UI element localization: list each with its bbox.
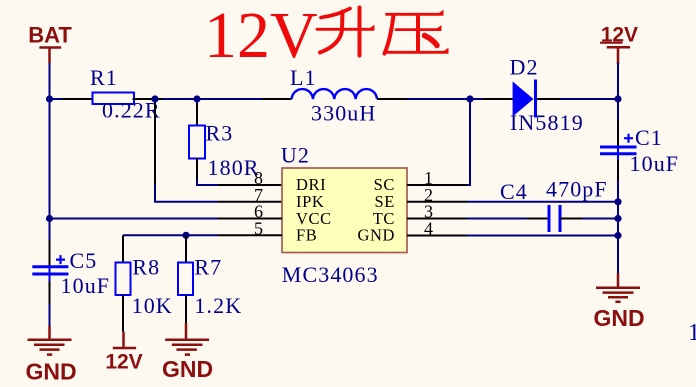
pin R7 bottom (black) (185, 295, 187, 323)
svg-text:1: 1 (688, 320, 696, 346)
pin C1 top (black) (617, 120, 619, 147)
svg-text:10uF: 10uF (61, 273, 111, 298)
svg-text:10uF: 10uF (630, 151, 680, 176)
resistor R8 (116, 255, 173, 318)
svg-text:GND: GND (593, 305, 644, 331)
wire SE to right rail (467, 201, 618, 203)
pin U2 DRI (black) (218, 184, 282, 186)
pin U2 VCC (black) (218, 218, 282, 220)
node junction at BAT/R1 (46, 95, 53, 102)
svg-text:C4: C4 (500, 179, 528, 204)
svg-text:FB: FB (296, 226, 317, 245)
svg-text:0.22R: 0.22R (102, 98, 161, 123)
pin R3 top (black) (196, 104, 198, 126)
node junction R7 top (182, 232, 189, 239)
svg-text:C5: C5 (70, 248, 98, 273)
svg-text:10K: 10K (132, 293, 173, 318)
inductor L1 (290, 65, 377, 126)
capacitor C5 lead (blue) (49, 267, 51, 281)
svg-text:L1: L1 (290, 65, 317, 90)
svg-text:R3: R3 (206, 121, 234, 146)
pin U2 GND (black) (407, 235, 467, 237)
wire BAT vertical down to VCC row and C5 (49, 63, 51, 240)
svg-text:R8: R8 (132, 255, 160, 280)
wire IPK branch vertical x=155 (upper) (154, 99, 156, 104)
node junction SE row (614, 198, 621, 205)
resistor R7 (178, 255, 242, 318)
svg-text:D2: D2 (510, 54, 539, 79)
svg-text:12V: 12V (105, 351, 142, 374)
pin L1 right (black) (377, 98, 407, 100)
pin C5 bottom (black) (49, 281, 51, 304)
svg-text:12V: 12V (204, 0, 318, 72)
svg-text:R1: R1 (90, 65, 118, 90)
wire FB to R8/R7 (123, 234, 218, 236)
wire IPK bend to pin 7 (155, 184, 218, 202)
capacitor C1 (600, 125, 679, 176)
title 12V升压 (204, 0, 449, 72)
pin U2 SE (black) (407, 201, 467, 203)
ground symbol mid (under R7) (165, 323, 209, 354)
wire IPK branch vertical x=155 (dark) (154, 103, 156, 185)
pin C4 left (black) (527, 218, 549, 220)
svg-text:C1: C1 (635, 125, 663, 150)
node junction SC riser (466, 95, 473, 102)
ground symbol right (596, 273, 640, 302)
pin R1 left (black) (62, 98, 93, 100)
power port BAT (28, 23, 72, 64)
pin C1 bottom (black) (617, 160, 619, 180)
pin U2 IPK (black) (218, 201, 282, 203)
svg-text:330uH: 330uH (311, 101, 376, 126)
pin L1 left (black) (262, 98, 292, 100)
wire C5 to GND (49, 304, 51, 326)
node junction TC row (614, 215, 621, 222)
pin U2 SC (black) (407, 184, 467, 186)
wire R3 branch vertical (196, 99, 198, 105)
pin U2 FB (black) (218, 234, 282, 236)
svg-text:470pF: 470pF (546, 177, 608, 202)
pin R1 right (black) (133, 98, 163, 100)
pin C5 top (black) (49, 240, 51, 267)
svg-text:GND: GND (357, 226, 395, 245)
ground symbol left (under C5) (28, 326, 72, 355)
node junction GND row (614, 232, 621, 239)
wire D2 to 12V node (560, 98, 618, 100)
svg-text:BAT: BAT (28, 23, 72, 48)
node junction 12V/C1 (614, 95, 621, 102)
wire L1 to D2 (407, 98, 483, 100)
pin R7 top (black) (185, 235, 187, 262)
wire SC riser to top (467, 99, 470, 185)
wire VCC to BAT rail (50, 218, 219, 220)
svg-text:U2: U2 (281, 142, 310, 167)
diode D2 (510, 54, 584, 135)
pin D2 anode (black) (483, 98, 513, 100)
wire R3 to DRI bend (197, 179, 218, 185)
node junction R1-out / IPK branch (151, 95, 158, 102)
wire TC to C4 (467, 218, 527, 220)
chip U2 MC34063 (254, 142, 433, 287)
wire BAT node to R1 (50, 98, 63, 100)
pin R3 bottom (black) (196, 158, 198, 180)
svg-text:1.2K: 1.2K (194, 293, 242, 318)
svg-text:IN5819: IN5819 (510, 110, 584, 135)
capacitor C5 (32, 248, 110, 298)
svg-text:GND: GND (25, 359, 76, 385)
wire R1 to L1 (163, 98, 263, 100)
power port 12V bottom (105, 332, 142, 374)
wire C4 to right rail (582, 218, 618, 220)
pin R8 bottom (black) (122, 295, 124, 332)
power port 12V top (600, 24, 638, 65)
resistor R3 (189, 121, 260, 181)
capacitor C1 lead (blue) (617, 147, 619, 160)
svg-text:GND: GND (162, 356, 213, 382)
node junction R3 branch (193, 95, 200, 102)
svg-text:180R: 180R (208, 155, 260, 180)
capacitor C4 (500, 177, 608, 233)
hanzi 压 (385, 10, 449, 54)
pin R8 top (black) (122, 235, 124, 262)
wire node down to C1 (617, 99, 619, 120)
hanzi 升 (317, 8, 375, 56)
wire C1 to GND (617, 180, 619, 273)
pin U2 TC (black) (407, 218, 467, 220)
resistor R1 (90, 65, 161, 123)
node junction VCC/BAT rail (46, 215, 53, 222)
pin C4 right (black) (560, 218, 582, 220)
svg-text:MC34063: MC34063 (282, 262, 379, 287)
pin D2 cathode (black) (537, 98, 560, 100)
svg-text:R7: R7 (194, 255, 222, 280)
wire 12V stub to node (617, 63, 619, 99)
wire GND pin to right rail (467, 235, 618, 237)
